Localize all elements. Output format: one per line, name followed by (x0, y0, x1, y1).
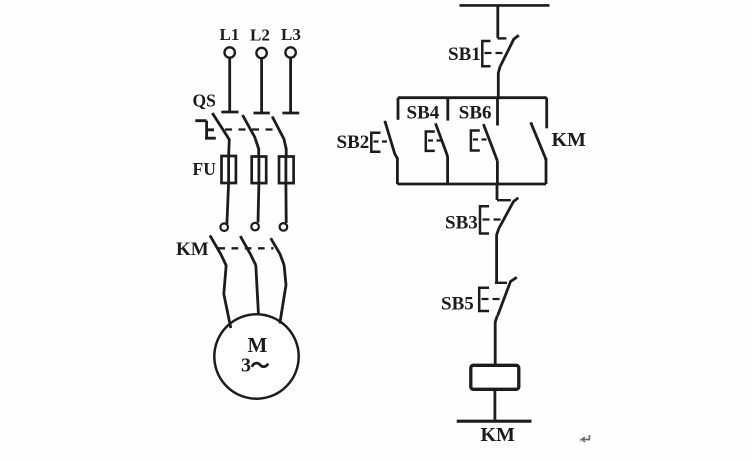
wire KM pole1 to motor (224, 265, 231, 328)
terminal L2 (256, 48, 266, 58)
pushbutton SB6 actuator (471, 131, 480, 151)
contactor KM contact terminal pole3 (280, 223, 288, 231)
pushbutton SB1 blade (500, 35, 519, 66)
wire fuse1 to KM contact (227, 183, 229, 224)
svg-text:SB2: SB2 (337, 132, 370, 153)
branch SB4 top terminal (446, 98, 449, 121)
pushbutton SB4 actuator (426, 132, 435, 151)
wire fuse2 to KM contact (257, 183, 261, 223)
contactor KM blade pole3 (271, 238, 284, 265)
pushbutton SB5 fixed contact bar (495, 282, 507, 284)
switch QS fixed contact bar pole3 (282, 112, 299, 115)
switch QS blade pole2 (243, 115, 259, 149)
contactor KM blade pole2 (240, 236, 256, 265)
pushbutton SB6 actuator dashed link (473, 138, 490, 140)
pushbutton SB6 bottom terminal (496, 161, 499, 184)
svg-text:L2: L2 (250, 26, 270, 45)
wire QS pole1 to fuse (227, 139, 230, 157)
wire SB3 to SB5 (497, 229, 499, 283)
contactor KM blade pole1 (210, 235, 226, 265)
switch QS linkage dashed line (225, 128, 280, 130)
pushbutton SB3 fixed contact bar (497, 199, 511, 201)
switch QS handle (195, 121, 216, 139)
svg-text:M: M (248, 333, 268, 357)
fuse FU pole2 (252, 157, 267, 184)
svg-text:SB3: SB3 (445, 213, 478, 234)
wire QS pole3 to fuse (285, 148, 288, 157)
pushbutton SB1 actuator dashed link (485, 52, 508, 54)
pushbutton SB2 actuator dashed link (374, 140, 391, 142)
terminal L3 (285, 47, 295, 57)
svg-text:KM: KM (176, 239, 209, 260)
svg-text:L1: L1 (220, 25, 240, 44)
pushbutton SB3 actuator dashed link (483, 218, 505, 220)
wire KM pole2 to motor (256, 265, 259, 315)
motor M (214, 314, 298, 398)
wire KM pole3 to motor (280, 265, 286, 324)
svg-text:SB5: SB5 (441, 294, 474, 315)
wire L1 to QS (228, 58, 231, 112)
switch QS fixed contact bar pole1 (221, 111, 238, 114)
wire fuse3 to KM contact (284, 183, 287, 223)
branch KM top terminal (545, 98, 548, 129)
branch SB6 top terminal (496, 98, 499, 126)
pushbutton SB4 blade (436, 123, 448, 157)
branch SB2 top terminal (397, 98, 400, 120)
wire coil to bottom bar (493, 389, 496, 420)
pushbutton SB4 actuator dashed link (428, 139, 442, 141)
parallel block bottom line (397, 183, 546, 186)
pushbutton SB2 actuator (371, 133, 380, 152)
svg-text:SB4: SB4 (407, 103, 440, 124)
bottom supply bus bar (457, 420, 532, 423)
svg-text:KM: KM (552, 129, 587, 151)
parallel block top line (398, 96, 547, 99)
pushbutton SB5 actuator (479, 288, 489, 311)
contactor KM contact terminal pole1 (220, 223, 228, 231)
svg-text:L3: L3 (281, 25, 301, 44)
wire bus to SB1 (496, 5, 499, 38)
pushbutton SB2 bottom terminal (396, 158, 399, 185)
pushbutton SB3 blade (499, 198, 519, 229)
terminal L1 (225, 47, 235, 57)
contactor KM linkage dashed line (218, 247, 273, 249)
wire L2 to QS (260, 59, 263, 113)
svg-text:FU: FU (193, 159, 217, 179)
svg-text:SB6: SB6 (459, 103, 492, 124)
pushbutton SB5 actuator dashed link (482, 298, 504, 300)
carriage-return mark (582, 435, 589, 440)
pushbutton SB2 blade (385, 121, 398, 159)
coil KM (471, 365, 519, 389)
pushbutton SB3 actuator (480, 206, 489, 233)
fuse FU pole3 (279, 157, 294, 184)
pushbutton SB5 blade (498, 277, 517, 316)
svg-text:3: 3 (241, 354, 251, 376)
wire SB5 to coil (495, 316, 497, 366)
svg-text:KM: KM (481, 424, 516, 446)
switch QS fixed contact bar pole2 (254, 112, 270, 115)
wire SB1 to parallel block (498, 66, 500, 98)
svg-text:SB1: SB1 (448, 44, 481, 65)
wire L3 to QS (289, 58, 292, 113)
pushbutton SB6 blade (483, 124, 497, 161)
contactor auxiliary contact KM bottom terminal (545, 158, 548, 184)
switch QS blade pole1 (212, 113, 229, 140)
top supply bus bar (460, 4, 550, 7)
contactor KM contact terminal pole2 (251, 223, 259, 231)
contactor auxiliary contact KM blade (531, 122, 546, 160)
wire block to SB3 (496, 184, 499, 200)
pushbutton SB1 actuator (482, 41, 490, 66)
fuse FU pole1 (222, 156, 236, 183)
svg-text:QS: QS (193, 91, 216, 111)
pushbutton SB1 fixed contact bar (498, 37, 507, 39)
wire QS pole2 to fuse (257, 148, 260, 157)
switch QS blade pole3 (272, 117, 286, 150)
pushbutton SB4 bottom terminal (446, 156, 449, 184)
